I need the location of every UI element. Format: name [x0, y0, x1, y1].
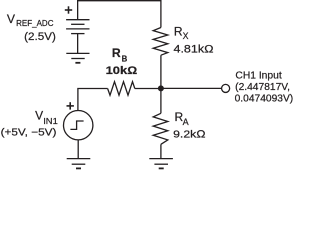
source VIN1 step waveform	[70, 121, 83, 129]
wire VIN1 to ground	[77, 140, 79, 159]
source VIN1 circle	[63, 111, 92, 140]
node junction dot	[158, 85, 164, 91]
source VIN1 plus sign	[67, 102, 74, 109]
wire VIN1 to RB	[78, 89, 108, 111]
battery V_REF_ADC plus sign	[65, 6, 72, 13]
wire RA to ground	[160, 144, 162, 158]
ground (VIN1)	[67, 159, 91, 169]
svg-text:10kΩ: 10kΩ	[106, 65, 138, 77]
wire battery to ground	[77, 34, 79, 54]
ground (RA)	[149, 159, 173, 169]
svg-text:4.81kΩ: 4.81kΩ	[174, 43, 214, 55]
CH1 input terminal open circle	[222, 84, 230, 92]
resistor RB	[108, 82, 135, 96]
wire node to CH1 terminal	[161, 87, 222, 89]
svg-text:(2.5V): (2.5V)	[24, 31, 56, 43]
svg-text:(+5V, −5V): (+5V, −5V)	[1, 128, 57, 139]
svg-text:CH1 Input: CH1 Input	[235, 70, 281, 81]
wire node to RA	[160, 88, 162, 113]
ground (battery)	[66, 53, 89, 62]
wire top rail	[78, 1, 161, 28]
svg-text:(2.447817V,: (2.447817V,	[235, 82, 290, 93]
battery V_REF_ADC	[66, 20, 89, 34]
resistor RX	[153, 28, 168, 56]
wire RX to node	[160, 55, 162, 88]
resistor RA	[153, 113, 168, 144]
svg-text:0.0474093V): 0.0474093V)	[235, 94, 294, 105]
svg-text:9.2kΩ: 9.2kΩ	[173, 129, 206, 141]
wire RB to node	[135, 88, 161, 90]
